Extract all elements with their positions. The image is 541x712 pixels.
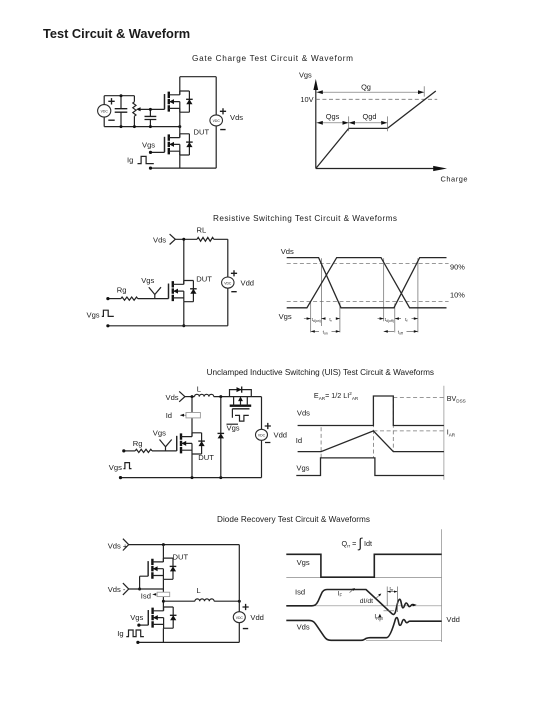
Id trace — [298, 431, 444, 452]
lower gate wire — [139, 624, 148, 626]
probe chevron — [179, 391, 185, 401]
svg-text:Vgs: Vgs — [227, 424, 240, 433]
source rail to mid — [179, 108, 181, 126]
wire: left source box — [104, 96, 134, 127]
bottom rail — [138, 641, 239, 643]
source Vdd — [222, 277, 234, 288]
svg-text:Qg: Qg — [361, 82, 371, 91]
source rail — [183, 302, 185, 326]
right rail and Vds source — [215, 77, 217, 168]
svg-text:Vgs: Vgs — [153, 428, 166, 437]
svg-text:Isd: Isd — [141, 592, 151, 601]
svg-text:Vds: Vds — [297, 623, 310, 632]
waveform 1 : gate charge — [299, 71, 468, 184]
td(on) arrow — [304, 318, 311, 320]
junction dots — [120, 94, 123, 97]
dashed verticals — [321, 397, 393, 458]
right axis — [443, 386, 445, 480]
svg-text:Qgs: Qgs — [326, 112, 340, 121]
svg-text:Id: Id — [166, 411, 172, 420]
svg-text:L: L — [197, 586, 201, 595]
svg-text:Vdd: Vdd — [250, 613, 264, 622]
measurement verticals — [311, 258, 418, 332]
capacitor C1 — [120, 96, 122, 127]
svg-text:Resistive Switching Test Circu: Resistive Switching Test Circuit & Wavef… — [213, 214, 397, 223]
t_off arrow — [384, 330, 418, 332]
svg-text:Vgs: Vgs — [87, 311, 100, 320]
svg-text:Vdd: Vdd — [274, 430, 288, 439]
svg-text:Vdd: Vdd — [241, 278, 255, 287]
td(off) arrow — [378, 318, 384, 320]
Vgs trace — [286, 554, 441, 577]
svg-text:Id: Id — [296, 436, 302, 445]
Qgd dimension — [349, 122, 388, 124]
svg-text:DUT: DUT — [173, 553, 189, 562]
Vgs curve — [316, 91, 436, 169]
svg-text:Vgs: Vgs — [141, 276, 154, 285]
rheostat (variable resistor) — [133, 96, 135, 127]
svg-text:Vgs: Vgs — [296, 464, 309, 473]
Vgs trace — [287, 258, 447, 308]
svg-text:Vds: Vds — [297, 409, 310, 418]
resistor Rg — [121, 297, 138, 300]
Isd baseline — [286, 605, 441, 607]
svg-text:Vds -: Vds - — [108, 585, 126, 594]
tf arrow — [395, 318, 418, 320]
svg-text:Vgs: Vgs — [299, 71, 312, 80]
gate bar wire Q1 — [164, 94, 166, 109]
svg-text:90%: 90% — [450, 262, 465, 271]
svg-text:Vds: Vds — [230, 113, 243, 122]
svg-text:VDC: VDC — [258, 434, 266, 438]
lower source rail — [162, 628, 164, 642]
svg-text:Gate Charge Test Circuit & Wav: Gate Charge Test Circuit & Waveform — [192, 54, 353, 63]
DUT MOSFET — [165, 134, 193, 155]
trr span — [387, 587, 397, 613]
current sensor Id — [186, 413, 200, 418]
drain rail — [183, 239, 185, 284]
right rail + Vdd source — [261, 397, 263, 478]
gate bar wire DUT — [151, 137, 165, 153]
Vds trace — [298, 396, 444, 426]
capacitor C2 — [149, 109, 151, 126]
svg-text:Vds: Vds — [281, 247, 294, 256]
top rail — [175, 238, 228, 240]
svg-text:Vgs: Vgs — [279, 312, 292, 321]
plus sign — [108, 98, 114, 104]
driver body diode loop — [230, 390, 252, 397]
upper DUT MOSFET — [148, 558, 176, 579]
right axis — [441, 529, 443, 642]
svg-text:Vds: Vds — [153, 236, 166, 245]
svg-text:VDC: VDC — [236, 616, 244, 620]
gate wire — [152, 450, 177, 452]
resistor Rg — [135, 449, 152, 452]
Qgs dimension — [317, 122, 349, 124]
svg-text:Qgd: Qgd — [363, 112, 377, 121]
gate wire — [138, 298, 169, 300]
DUT MOSFET — [177, 433, 205, 454]
svg-text:DUT: DUT — [196, 275, 212, 284]
top rail to inductor — [185, 396, 195, 398]
x axis — [316, 168, 435, 170]
upper source rail w/ sensor Isd — [162, 579, 164, 611]
waveform 2 : resistive switching — [279, 247, 466, 336]
lower MOSFET — [148, 607, 176, 628]
drain rail mid to DUT — [179, 127, 181, 138]
svg-text:Vgs: Vgs — [297, 558, 310, 567]
mid rail — [104, 126, 180, 128]
svg-text:VDC: VDC — [101, 110, 109, 114]
90% / 10% dashed levels — [287, 264, 449, 302]
svg-text:Vds: Vds — [166, 393, 179, 402]
svg-text:Ig: Ig — [117, 629, 123, 638]
svg-text:Vgs: Vgs — [142, 140, 155, 149]
svg-text:10%: 10% — [450, 291, 465, 300]
drain rail to top — [180, 77, 216, 95]
svg-text:Rg: Rg — [133, 439, 143, 448]
svg-text:Rg: Rg — [117, 285, 127, 294]
probe chevron — [170, 234, 176, 244]
svg-text:Charge: Charge — [441, 175, 468, 184]
inductor L — [194, 394, 213, 396]
bottom rail — [121, 477, 262, 479]
resistor RL — [197, 237, 214, 241]
Vgs trace — [296, 458, 444, 476]
bottom rail — [151, 167, 217, 169]
svg-text:Unclamped Inductive Switching: Unclamped Inductive Switching (UIS) Test… — [207, 368, 434, 377]
y axis — [315, 87, 317, 169]
drain rail w/ current sensor — [191, 397, 193, 437]
10V dashed level — [316, 98, 437, 100]
svg-text:VDC: VDC — [224, 281, 232, 285]
dashed levels — [373, 397, 444, 431]
t_on arrow — [311, 330, 340, 332]
DUT source to bottom rail — [179, 151, 181, 168]
svg-text:Isd: Isd — [295, 587, 305, 596]
driver MOSFET Q1 (upper) — [165, 91, 193, 112]
Vgs probe (Y) — [149, 287, 161, 298]
Vds trace — [287, 258, 447, 308]
svg-text:DUT: DUT — [198, 453, 214, 462]
tr arrow — [321, 318, 340, 320]
DUT source rail — [191, 454, 193, 478]
top rail continues — [214, 396, 262, 398]
svg-text:10V: 10V — [300, 95, 313, 104]
top rail — [129, 544, 240, 546]
minus sign — [108, 119, 114, 121]
Vgs baseline — [286, 576, 441, 578]
+ Vds - labels — [220, 108, 226, 129]
wiper arrow — [136, 107, 141, 111]
waveform 3 : UIS — [296, 386, 466, 480]
source VDC (bias supply) — [98, 105, 111, 117]
svg-text:dI/dt: dI/dt — [360, 598, 373, 605]
waveform 4 : diode recovery — [286, 529, 460, 642]
Vgs probe (Y) — [160, 440, 172, 451]
inductor branch L — [163, 600, 195, 602]
Vds low baseline — [366, 639, 442, 641]
svg-text:Vdd: Vdd — [446, 615, 460, 624]
svg-text:L: L — [197, 384, 201, 393]
svg-text:VDC: VDC — [213, 119, 221, 123]
main rail top — [162, 545, 164, 562]
clamp diode — [220, 397, 222, 478]
svg-text:Ig: Ig — [127, 156, 133, 165]
ticks — [349, 86, 425, 131]
svg-text:Vgs: Vgs — [130, 613, 143, 622]
svg-text:Test Circuit & Waveform: Test Circuit & Waveform — [43, 26, 190, 41]
DUT MOSFET — [169, 281, 197, 302]
Isd trace — [286, 590, 414, 615]
Qg dimension — [317, 91, 425, 93]
svg-text:Diode Recovery Test Circuit &: Diode Recovery Test Circuit & Waveforms — [217, 515, 370, 524]
svg-text:DUT: DUT — [194, 128, 210, 137]
gate driver MOSFET (horizontal) — [230, 405, 252, 407]
driver gate pulse — [232, 409, 248, 421]
right rail + Vdd source — [238, 545, 240, 643]
Vds trace — [286, 618, 441, 641]
svg-text:RL: RL — [197, 226, 207, 235]
bottom rail — [108, 325, 228, 327]
svg-text:Vgs: Vgs — [109, 463, 122, 472]
gate ties to Vds- line — [140, 576, 149, 589]
